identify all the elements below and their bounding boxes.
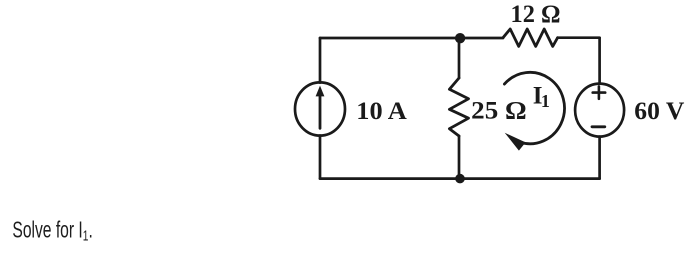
- wire bottom rail: [320, 177, 600, 180]
- current source arrow shaft: [319, 95, 322, 129]
- current source arrowhead: [316, 86, 325, 97]
- wire middle branch upper: [458, 38, 461, 78]
- wire top rail left segment: [320, 37, 503, 40]
- wire right branch lower: [598, 137, 601, 179]
- resistor R-top 12 ohm zigzag: [503, 29, 558, 46]
- svg-text:Solve for I1.: Solve for I1.: [12, 218, 92, 244]
- wire left branch lower: [319, 136, 322, 179]
- svg-text:1: 1: [541, 91, 550, 111]
- resistor R-mid 25 ohm zigzag: [449, 78, 468, 136]
- wire middle branch lower: [458, 136, 461, 179]
- node top junction dot: [455, 33, 465, 43]
- voltage source minus sign: [592, 125, 605, 128]
- svg-text:25 Ω: 25 Ω: [471, 98, 527, 125]
- mesh current I1 loop arc: [504, 72, 564, 143]
- voltage source V1 circle: [575, 84, 624, 137]
- wire top rail right segment: [558, 36, 600, 39]
- node bottom junction dot: [455, 174, 465, 184]
- wire left branch upper: [319, 38, 322, 83]
- mesh arrow head: [505, 133, 526, 151]
- wire right branch upper: [598, 38, 601, 84]
- svg-text:12 Ω: 12 Ω: [511, 1, 561, 28]
- svg-text:60 V: 60 V: [634, 98, 684, 125]
- svg-text:10 A: 10 A: [356, 98, 407, 125]
- current source I-src circle: [295, 82, 345, 135]
- voltage source plus sign: [593, 86, 606, 98]
